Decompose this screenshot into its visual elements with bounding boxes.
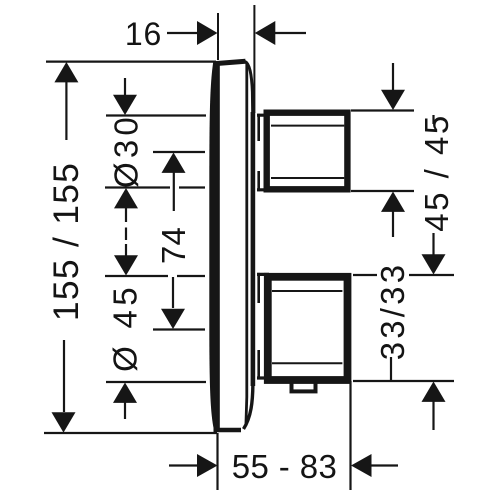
- dim 55-83: right tail: [371, 464, 398, 466]
- dim 55-83: left arrowhead: [197, 454, 218, 477]
- lower knob inner line 2: [272, 362, 342, 364]
- neck of upper handle: [257, 115, 268, 190]
- escutcheon plate face (front curved band): [209, 62, 220, 431]
- dim 16: right extension line: [253, 5, 255, 113]
- svg-text:55 - 83: 55 - 83: [232, 448, 338, 485]
- dim 74: lower tail: [172, 277, 174, 308]
- dim 45/45: lower tail: [392, 211, 394, 237]
- svg-text:45 / 45: 45 / 45: [418, 113, 455, 231]
- svg-text:Ø 45: Ø 45: [107, 283, 144, 372]
- tick line knob2 center: [153, 328, 205, 330]
- dim O30: down arrowhead: [113, 95, 137, 115]
- dim O30: upper tail: [124, 78, 126, 96]
- dim 33/33: lower tail: [432, 401, 434, 430]
- svg-text:16: 16: [125, 16, 162, 52]
- dim 33/33: up arrowhead: [422, 382, 446, 402]
- dim 33/33: bottom extension line: [353, 380, 454, 382]
- dim 55-83: left extension line: [216, 433, 218, 490]
- plate back flange bar: [251, 112, 256, 386]
- dim O45: down arrowhead: [114, 255, 138, 275]
- tick line knob1 center: [153, 151, 205, 153]
- dim 45/45: bottom extension line: [351, 190, 414, 192]
- dim 74: upper tail: [173, 172, 175, 211]
- dim 45/45: upper tail: [392, 63, 394, 91]
- upper knob inner line 1: [271, 125, 344, 127]
- neck of lower handle: [257, 274, 269, 378]
- plate top edge: [214, 61, 246, 64]
- dim 155/155: down arrowhead: [52, 412, 76, 432]
- dim 16: right tail: [275, 32, 306, 34]
- dim 33/33: top extension line segments: [353, 274, 454, 276]
- dim 33/33: down arrowhead: [422, 254, 446, 274]
- dim O45: upper tail: [125, 244, 127, 257]
- dim 155/155: lower tail: [63, 340, 65, 412]
- tick line O45 top: [105, 275, 205, 277]
- dim 33/33: upper tail: [432, 233, 434, 255]
- svg-text:33/33: 33/33: [374, 262, 411, 361]
- upper handle knob: [267, 113, 348, 190]
- dim 16: right arrowhead: [255, 21, 275, 45]
- dim 155/155: upper tail: [65, 82, 67, 140]
- dim 74: down arrowhead: [161, 309, 185, 329]
- dim 55-83: left tail: [169, 464, 198, 466]
- dim 55-83: right arrowhead: [351, 454, 372, 477]
- lower handle knob: [268, 277, 348, 380]
- dim 155/155: bottom extension line: [44, 432, 217, 434]
- dim 45/45: down arrowhead: [381, 90, 405, 110]
- dim O30-O45 dashed connector: [125, 208, 127, 240]
- dim 16: left extension line: [217, 13, 219, 60]
- dim 155/155: top extension line: [46, 60, 216, 62]
- dim O30: up arrowhead: [114, 188, 138, 208]
- svg-text:Ø30: Ø30: [108, 113, 145, 188]
- plate top-back bevel: [245, 62, 253, 114]
- plate bottom-back bevel: [244, 384, 253, 429]
- dim 45/45: top extension line: [351, 109, 414, 111]
- valve stem below lower knob: [292, 380, 316, 391]
- tick line knob1 top: [106, 114, 206, 116]
- dim 74: up arrowhead: [162, 153, 186, 173]
- tick line O30 bottom: [105, 186, 205, 188]
- dim 16: left arrowhead: [197, 21, 218, 45]
- dim 16: left tail: [167, 32, 198, 34]
- dim 45/45: up arrowhead: [381, 192, 405, 212]
- tick line knob2 bottom: [106, 381, 206, 383]
- svg-text:74: 74: [155, 227, 192, 264]
- svg-text:155 / 155: 155 / 155: [46, 162, 86, 321]
- plate bottom edge: [214, 428, 242, 432]
- dim O45: lower tail: [124, 402, 126, 419]
- plate back inner line: [244, 63, 248, 426]
- dim 33/33: text column stub: [390, 357, 392, 380]
- dim 55-83: right extension line: [349, 381, 351, 490]
- lower knob inner line 1: [272, 290, 342, 292]
- dim 45/45: text column stub: [432, 115, 434, 124]
- dim 155/155: up arrowhead: [54, 62, 78, 82]
- upper knob inner line 2: [271, 177, 344, 179]
- dim O45: up arrowhead: [113, 383, 137, 403]
